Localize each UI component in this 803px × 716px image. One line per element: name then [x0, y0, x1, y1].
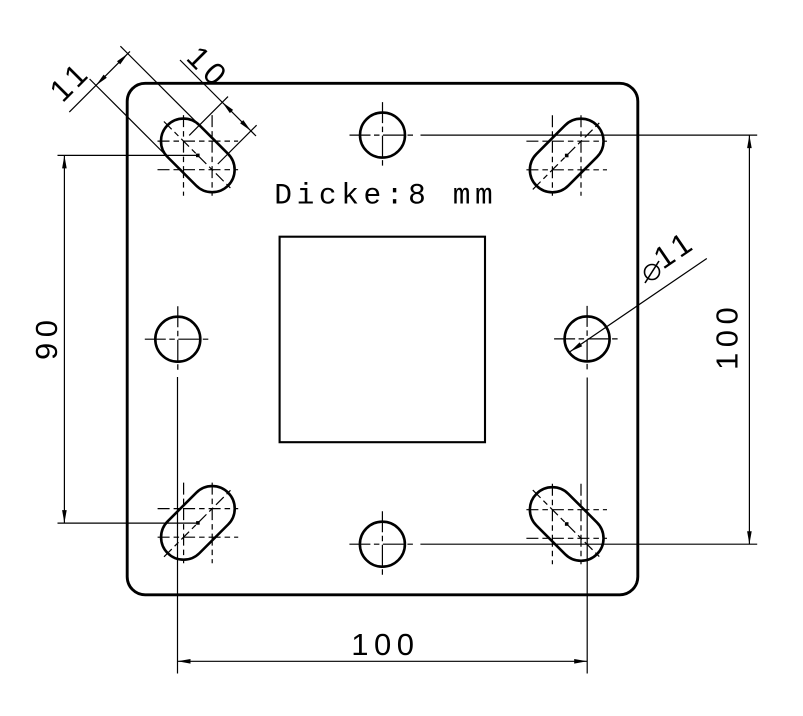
svg-text:90: 90 — [29, 315, 64, 360]
svg-text:Dicke:8 mm: Dicke:8 mm — [274, 179, 497, 213]
svg-text:100: 100 — [709, 302, 744, 370]
svg-text:100: 100 — [351, 627, 419, 662]
